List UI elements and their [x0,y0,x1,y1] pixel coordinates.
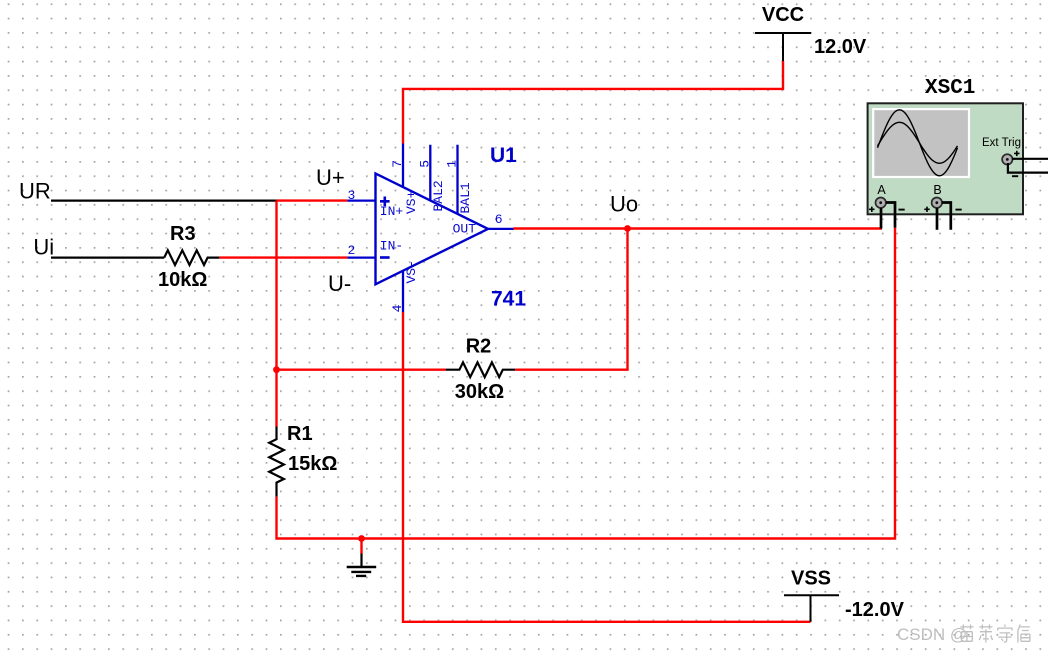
ground [347,539,377,576]
oscilloscope terminal Ext Trig [1002,151,1019,177]
svg-text:3: 3 [348,188,356,203]
svg-text:R2: R2 [466,336,492,358]
svg-text:Ext Trig: Ext Trig [982,137,1021,149]
resistor R1 [269,423,337,497]
power VCC [755,4,867,61]
oscilloscope terminal B [924,198,961,213]
power VSS [784,568,905,622]
svg-text:R3: R3 [170,223,196,245]
junction Uo [624,225,631,232]
svg-text:IN-: IN- [380,239,403,254]
svg-text:OUT: OUT [453,222,477,237]
wire ext trig + [1012,158,1048,160]
svg-text:U1: U1 [490,144,517,167]
oscilloscope XSC1 [868,77,1023,214]
svg-text:4: 4 [390,304,405,312]
svg-text:6: 6 [495,212,503,227]
svg-text:-12.0V: -12.0V [845,599,905,621]
svg-text:BAL2: BAL2 [431,180,446,211]
svg-text:5: 5 [417,160,432,168]
wire R2 left to U+ vertical (red) [277,369,446,371]
wire R3 to pin 2 (red) [219,256,347,258]
svg-text:VSS: VSS [791,568,831,590]
svg-text:2: 2 [348,243,356,258]
wire scope B- hook [942,203,951,230]
svg-text:U-: U- [328,271,351,296]
svg-text:UR: UR [19,179,51,204]
wire U+ vertical (red) [275,201,277,427]
svg-text:IN+: IN+ [380,204,404,219]
svg-text:12.0V: 12.0V [814,36,867,58]
svg-text:BAL1: BAL1 [458,182,473,213]
svg-text:10kΩ: 10kΩ [158,269,207,291]
svg-text:VS-: VS- [404,260,419,283]
wire pin 6 output (blue handled above) red to scope [514,227,883,229]
oscilloscope terminal A [869,198,905,213]
resistor R3 [158,223,219,291]
op-amp U1 body [347,144,513,313]
svg-text:R1: R1 [287,423,313,445]
wire Ui lead (black) [51,257,164,259]
svg-text:U+: U+ [316,165,345,190]
wire UR lead (black) [51,200,277,202]
svg-text:B: B [933,183,941,197]
op-amp U1 pin labels [348,160,503,313]
wire pin 4 to VSS (red) [403,312,811,622]
wire scope B+ stub [936,208,939,230]
resistor R2 [446,336,516,404]
svg-text:Ui: Ui [33,235,54,260]
svg-text:30kΩ: 30kΩ [455,381,504,403]
svg-text:15kΩ: 15kΩ [288,453,337,475]
svg-text:VCC: VCC [762,4,804,26]
svg-text:741: 741 [491,288,526,311]
svg-text:VS+: VS+ [404,190,419,214]
wire scope A- hook [886,203,895,228]
wire scope A+ stub [880,208,883,229]
wire UR to pin 3 (red) [277,199,348,201]
svg-text:A: A [877,183,886,197]
svg-text:XSC1: XSC1 [925,77,975,100]
wire VCC to op-amp pin 7 [403,61,783,144]
junction ground [358,535,365,542]
wire ext trig - [1008,163,1048,173]
svg-text:Uo: Uo [610,192,638,217]
wire R1 bottom to ground rail and scope A- (red) [277,228,896,539]
svg-text:CSDN @: CSDN @ [897,625,967,644]
junction R2/R1 [273,366,280,373]
svg-text:1: 1 [445,160,460,168]
svg-text:7: 7 [390,160,405,168]
watermark [897,625,1030,645]
wire Uo down to R2 (red) [515,229,627,370]
